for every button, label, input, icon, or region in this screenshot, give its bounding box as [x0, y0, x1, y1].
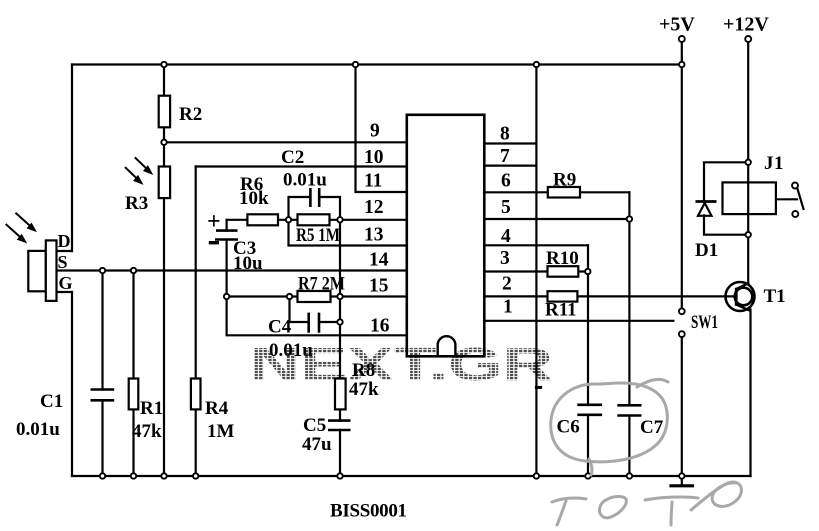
svg-text:G: G	[59, 273, 73, 293]
svg-text:R4: R4	[205, 398, 229, 419]
svg-text:0.01u: 0.01u	[283, 170, 327, 191]
svg-text:BISS0001: BISS0001	[330, 501, 407, 522]
svg-text:7: 7	[500, 146, 510, 167]
svg-text:15: 15	[369, 276, 389, 297]
svg-text:47k: 47k	[132, 421, 162, 442]
svg-text:C2: C2	[281, 147, 304, 168]
svg-text:+5V: +5V	[659, 14, 695, 36]
svg-text:S: S	[58, 252, 68, 272]
svg-text:C1: C1	[40, 391, 63, 412]
svg-text:R1: R1	[140, 398, 163, 419]
svg-text:R2: R2	[179, 104, 202, 125]
svg-text:R5 1M: R5 1M	[296, 225, 340, 246]
svg-text:5: 5	[501, 197, 511, 218]
svg-text:3: 3	[500, 248, 510, 269]
svg-text:12: 12	[364, 197, 384, 218]
svg-text:R11: R11	[545, 300, 577, 321]
svg-text:C6: C6	[557, 417, 580, 438]
svg-text:J1: J1	[764, 153, 784, 174]
svg-text:4: 4	[501, 226, 511, 247]
svg-text:R3: R3	[125, 193, 148, 214]
svg-text:+: +	[207, 209, 221, 235]
svg-text:C4: C4	[268, 317, 292, 338]
svg-text:R9: R9	[553, 170, 576, 191]
svg-text:R10: R10	[546, 248, 579, 269]
svg-text:47u: 47u	[302, 434, 332, 455]
svg-text:10: 10	[364, 147, 384, 168]
svg-text:1: 1	[503, 297, 513, 318]
svg-text:R8: R8	[352, 360, 375, 381]
svg-text:6: 6	[501, 171, 511, 192]
svg-text:9: 9	[370, 121, 380, 142]
svg-text:47k: 47k	[349, 379, 379, 400]
svg-text:0.01u: 0.01u	[269, 340, 313, 361]
svg-text:D: D	[58, 231, 71, 251]
svg-text:13: 13	[364, 225, 384, 246]
svg-text:+12V: +12V	[723, 14, 769, 36]
svg-text:SW1: SW1	[691, 312, 718, 333]
svg-text:C7: C7	[640, 417, 664, 438]
svg-text:10u: 10u	[233, 253, 263, 274]
svg-text:T1: T1	[764, 286, 786, 307]
svg-text:0.01u: 0.01u	[16, 419, 60, 440]
svg-text:16: 16	[370, 316, 390, 337]
svg-text:11: 11	[364, 171, 382, 192]
svg-text:10k: 10k	[239, 188, 269, 209]
svg-text:C5: C5	[303, 415, 326, 436]
svg-text:1M: 1M	[207, 421, 235, 442]
svg-text:D1: D1	[695, 240, 718, 261]
svg-text:2: 2	[502, 274, 512, 295]
svg-text:14: 14	[369, 250, 389, 271]
svg-text:8: 8	[500, 124, 510, 145]
svg-text:R7 2M: R7 2M	[298, 274, 345, 295]
